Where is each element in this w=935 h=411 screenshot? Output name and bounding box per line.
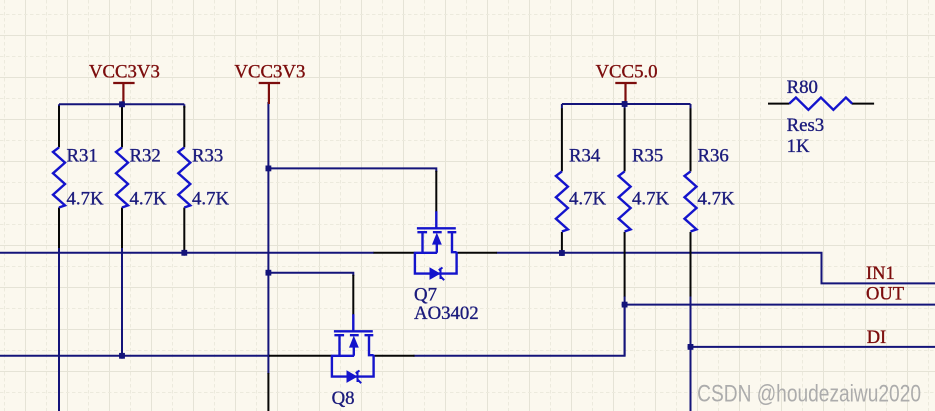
svg-text:4.7K: 4.7K [67,188,104,209]
svg-text:4.7K: 4.7K [698,188,735,209]
svg-text:AO3402: AO3402 [414,303,479,324]
svg-text:R33: R33 [192,146,223,167]
svg-text:R80: R80 [787,77,818,98]
svg-text:CSDN @houdezaiwu2020: CSDN @houdezaiwu2020 [697,379,921,407]
svg-text:VCC3V3: VCC3V3 [89,62,160,83]
svg-text:4.7K: 4.7K [569,188,606,209]
svg-text:4.7K: 4.7K [192,188,229,209]
svg-text:4.7K: 4.7K [632,188,669,209]
svg-text:4.7K: 4.7K [130,188,167,209]
svg-text:R32: R32 [130,146,161,167]
svg-text:IN1: IN1 [866,264,895,284]
svg-text:R36: R36 [698,146,729,167]
svg-text:DI: DI [867,328,887,348]
svg-text:VCC5.0: VCC5.0 [595,62,657,83]
svg-text:VCC3V3: VCC3V3 [234,62,305,83]
svg-text:R35: R35 [632,146,663,167]
svg-text:1K: 1K [787,136,810,157]
svg-text:OUT: OUT [866,285,904,305]
svg-text:R31: R31 [67,146,98,167]
svg-text:Q8: Q8 [332,388,355,409]
svg-text:R34: R34 [569,146,601,167]
svg-text:Res3: Res3 [787,115,825,136]
